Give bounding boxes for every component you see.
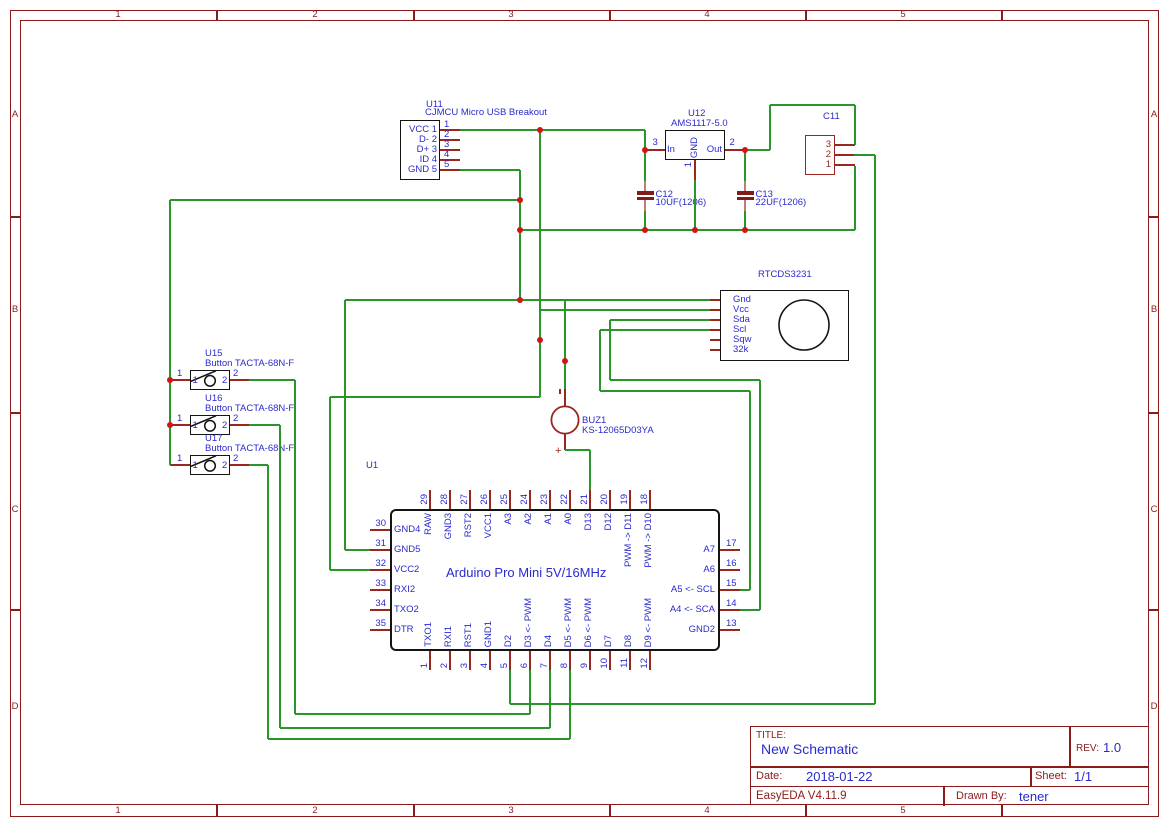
module U1 Arduino Pro Mini 5V/16MHz	[0, 0, 1, 1]
wire VCC: U11 pin1 to U12 In	[0, 0, 1, 1]
wire U1 D3 to U15 pin2	[0, 0, 1, 1]
wire C11 pin1 to GND rail	[0, 0, 1, 1]
wire VCC vertical from node at U11 pin1 down	[0, 0, 1, 1]
wire GND to buzzer minus	[0, 0, 1, 1]
wire U1 D5 to U17 pin2	[0, 0, 1, 1]
U1 bottom pins 1-12: TXO1 RXI1 RST1 GND1 D2 D3 D4 D5 D6 D7 D8 D9	[0, 0, 1, 1]
U1 right pins 13-17: A7 A6 A5 A4 GND2	[0, 0, 1, 1]
junction	[642, 227, 649, 234]
wire GND rail under U12	[0, 0, 1, 1]
wire 5V: U12 Out to C11 pin3	[0, 0, 1, 1]
wire SDA: RTC Sda to U1 A4	[0, 0, 1, 1]
wire SCL: RTC Scl to U1 A5	[0, 0, 1, 1]
capacitor C13 22UF(1206)	[0, 0, 1, 1]
junction	[167, 422, 174, 429]
wire U12 GND pin to rail	[0, 0, 1, 1]
wire C13 to rail	[0, 0, 1, 1]
regulator U12 AMS1117-5.0	[0, 0, 1, 1]
wire GND left branch to buttons	[0, 0, 1, 1]
junction	[537, 127, 544, 134]
junction	[167, 377, 174, 384]
push button U17 TACTA-68N-F	[0, 0, 1, 1]
junction	[537, 337, 544, 344]
junction	[517, 197, 524, 204]
junction	[517, 227, 524, 234]
junction	[562, 358, 569, 365]
connector U11 CJMCU Micro USB Breakout	[0, 0, 1, 1]
push button U16 TACTA-68N-F	[0, 0, 1, 1]
U1 top pins 18-29: RAW GND3 RST2 VCC1 A3 A2 A1 A0 D13 D12 D11 D10	[0, 0, 1, 1]
U1 left pins 30-35: GND4 GND5 VCC2 RXI2 TXO2 DTR	[0, 0, 1, 1]
wire GND: U11 GND to ground rail	[0, 0, 1, 1]
junction	[642, 147, 649, 154]
junction	[742, 147, 749, 154]
RTC module RTCDS3231	[0, 0, 1, 1]
junction	[692, 227, 699, 234]
wire C12 to rail	[0, 0, 1, 1]
wire GND to RTC Gnd and U1 GND5	[0, 0, 1, 1]
wire U1 D4 to U16 pin2	[0, 0, 1, 1]
wire VCC to RTC Vcc pin	[0, 0, 1, 1]
wire buzzer plus to U1 D13	[0, 0, 1, 1]
junction	[517, 297, 524, 304]
capacitor C12 10UF(1206)	[0, 0, 1, 1]
buzzer BUZ1 KS-12065D03YA	[0, 0, 1, 1]
junction	[742, 227, 749, 234]
wire C11 pin2 to U1 D2	[0, 0, 1, 1]
push button U15 TACTA-68N-F	[0, 0, 1, 1]
connector C11	[0, 0, 1, 1]
wire VCC to U1 VCC2 pin	[0, 0, 1, 1]
